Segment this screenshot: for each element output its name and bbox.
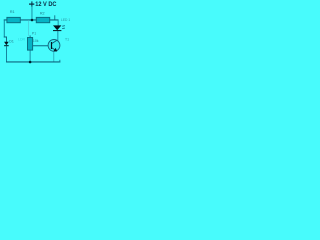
resistor R1: [7, 17, 20, 22]
svg-text:LDR: LDR: [18, 38, 25, 42]
wire pot top dark segment: [29, 35, 32, 37]
wire top rail: [4, 19, 59, 20]
node +12V terminal (+ symbol): [29, 1, 34, 6]
svg-text:R2: R2: [40, 12, 45, 16]
potentiometer P1: [28, 38, 33, 51]
transistor T1: [48, 40, 60, 52]
svg-text:12 V DC: 12 V DC: [35, 1, 56, 8]
wire diode cathode to bottom rail: [5, 46, 8, 62]
wire emitter to bottom rail: [52, 52, 55, 62]
LED LED1: [53, 25, 65, 31]
svg-text:T1: T1: [65, 37, 69, 41]
svg-text:P1: P1: [32, 32, 36, 36]
svg-text:R1: R1: [10, 10, 15, 14]
wire pot bottom to bottom rail: [29, 50, 32, 62]
wire bottom rail: [6, 61, 60, 62]
svg-text:D1: D1: [9, 39, 14, 43]
wire R2 to LED corner: [57, 19, 60, 25]
tick near corner: [53, 15, 56, 19]
wire diode anode lead: [5, 37, 8, 42]
svg-text:LED 1: LED 1: [61, 18, 70, 22]
wire pot top to rail faint: [27, 20, 30, 36]
wire supply drop from + to top rail: [31, 7, 34, 20]
background: [0, 0, 72, 72]
wire jog to diode: [4, 37, 7, 38]
wire wiper to base: [33, 44, 52, 47]
svg-text:10k: 10k: [33, 39, 39, 43]
resistor R2: [36, 17, 49, 22]
diode D1: [4, 42, 9, 46]
wire LED cathode to collector: [56, 31, 59, 40]
wire left branch down from rail: [3, 19, 6, 37]
wire rail right end stub: [58, 60, 61, 63]
node junction top rail / supply: [31, 19, 34, 22]
node junction bottom rail / pot: [29, 61, 32, 64]
